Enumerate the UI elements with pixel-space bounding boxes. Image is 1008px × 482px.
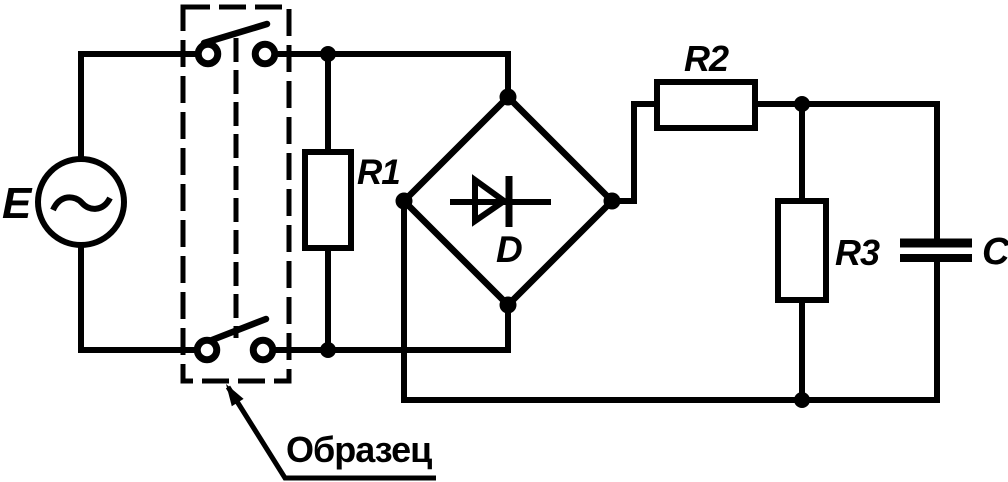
wire R2 to top-right corner down to capacitor xyxy=(755,104,937,240)
diode D triangle xyxy=(475,180,504,221)
svg-text:R2: R2 xyxy=(684,38,729,79)
dashed mechanical link line xyxy=(234,38,239,338)
switch S-top left contact xyxy=(198,44,218,64)
wire top switch to bridge top vertex xyxy=(278,54,508,97)
node R1 top junction xyxy=(320,46,336,62)
wire source-top to top switch xyxy=(81,54,196,160)
leader line to sample label xyxy=(228,387,436,478)
wire bottom switch to bridge bottom vertex xyxy=(274,305,508,350)
node bridge left vertex xyxy=(396,193,413,210)
switch S-bottom left contact xyxy=(197,340,217,360)
svg-text:D: D xyxy=(496,229,523,270)
node R3 top junction xyxy=(794,96,810,112)
wire R3 bottom branch xyxy=(799,300,805,400)
AC source tilde xyxy=(53,197,110,210)
node bridge right vertex xyxy=(604,193,621,210)
wire bridge right vertex to R2 xyxy=(612,104,657,201)
node R1 bottom junction xyxy=(320,342,336,358)
switch S-top right contact xyxy=(255,44,275,64)
node R3 bottom junction xyxy=(794,392,810,408)
arrowhead xyxy=(226,384,244,406)
wire source-bottom to bottom switch xyxy=(81,244,195,350)
svg-text:E: E xyxy=(2,179,33,228)
svg-text:Образец: Образец xyxy=(286,429,432,470)
wire R1 bottom branch xyxy=(325,248,331,350)
svg-text:R3: R3 xyxy=(835,232,880,273)
wire bridge left vertex down and bottom rail to capacitor xyxy=(404,201,937,400)
switch S-bottom lever xyxy=(212,319,266,340)
diode D symbol line xyxy=(450,199,551,205)
dashed box (sample) xyxy=(183,7,289,381)
svg-text:R1: R1 xyxy=(357,153,400,192)
diode D cathode bar xyxy=(506,176,513,227)
AC source E circle xyxy=(38,159,124,245)
node bridge top vertex xyxy=(500,89,517,106)
resistor R2 xyxy=(657,82,755,128)
capacitor C bottom plate xyxy=(900,254,972,262)
wire R3 top branch xyxy=(799,104,805,201)
switch S-bottom right contact xyxy=(253,340,273,360)
switch S-top lever xyxy=(204,24,267,43)
capacitor C top plate xyxy=(900,239,972,248)
diode bridge diamond xyxy=(404,97,612,305)
svg-text:C: C xyxy=(982,231,1008,273)
resistor R1 xyxy=(305,152,351,248)
wire R1 top branch xyxy=(325,54,331,152)
resistor R3 xyxy=(778,201,826,300)
node bridge bottom vertex xyxy=(500,297,517,314)
